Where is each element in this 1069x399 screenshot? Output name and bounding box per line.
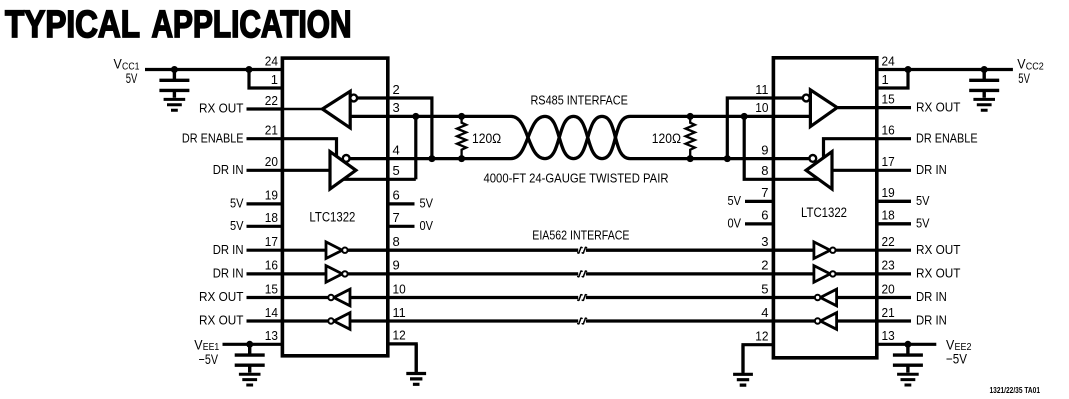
- wire VCC1 to pin 24: [145, 68, 282, 71]
- svg-text:12: 12: [393, 328, 406, 343]
- svg-text:6: 6: [761, 208, 768, 223]
- svg-text:10: 10: [393, 281, 406, 296]
- svg-text:1: 1: [882, 72, 889, 87]
- svg-text:11: 11: [755, 82, 768, 97]
- svg-text:DR IN: DR IN: [213, 266, 244, 281]
- svg-text:2: 2: [393, 82, 400, 97]
- svg-text:3: 3: [761, 234, 768, 249]
- wire branch A to pin 5: [414, 116, 417, 179]
- svg-text:DR IN: DR IN: [213, 162, 244, 177]
- pin numbers left side of U1: [265, 53, 278, 343]
- svg-text:15: 15: [265, 281, 278, 296]
- inverter EIA driver row 4 U2: [815, 313, 837, 330]
- wire net A to pin 10: [690, 115, 810, 118]
- svg-text:14: 14: [265, 305, 278, 320]
- break mark line 3: [578, 295, 587, 301]
- wire DR IN pin 20: [282, 169, 330, 172]
- svg-text:RX OUT: RX OUT: [916, 266, 961, 281]
- svg-text:RX OUT: RX OUT: [199, 289, 244, 304]
- wire EIA562 line 4: [350, 319, 815, 322]
- svg-text:5V: 5V: [728, 193, 742, 208]
- svg-text:9: 9: [393, 258, 400, 273]
- resistor RT2 120ohm: [686, 116, 695, 158]
- svg-text:21: 21: [882, 305, 895, 320]
- svg-text:120Ω: 120Ω: [472, 131, 501, 146]
- buffer EIA receiver row 2 U2: [814, 266, 836, 283]
- svg-text:20: 20: [882, 281, 895, 296]
- svg-text:22: 22: [882, 234, 895, 249]
- svg-text:21: 21: [265, 123, 278, 138]
- svg-text:8: 8: [393, 234, 400, 249]
- svg-text:12: 12: [755, 329, 768, 344]
- junction B-to-11 branch: [724, 155, 731, 162]
- junction B joins net: [428, 155, 435, 162]
- junction at C2: [246, 341, 253, 348]
- svg-text:22: 22: [265, 93, 278, 108]
- wire branch to pin 1: [249, 70, 282, 89]
- wire pin 18 stub U2: [877, 222, 911, 225]
- wire branch A to pin 8: [744, 116, 818, 179]
- twisted pair wire B: [462, 116, 691, 158]
- svg-text:DR ENABLE: DR ENABLE: [916, 130, 978, 145]
- wire pin 7 5V stub U2: [745, 200, 773, 203]
- svg-text:DR ENABLE: DR ENABLE: [182, 130, 244, 145]
- svg-text:5V: 5V: [916, 193, 930, 208]
- ground at U2 pin 12: [733, 345, 753, 385]
- junction at C3: [981, 66, 988, 73]
- svg-text:13: 13: [265, 328, 278, 343]
- svg-text:13: 13: [882, 328, 895, 343]
- wire branch to pin 1 U2: [877, 70, 908, 89]
- junction A-to-8 branch: [741, 113, 748, 120]
- wire pin 20 to EIA driver U2: [837, 296, 911, 299]
- IC U2 LTC1322 body: [773, 58, 876, 358]
- wire pin 19 stub: [247, 202, 283, 205]
- wire pin 20 stub: [247, 169, 283, 172]
- wire VEE1 to pin 13: [223, 343, 283, 346]
- svg-text:5V: 5V: [420, 196, 434, 211]
- svg-text:0V: 0V: [420, 218, 434, 233]
- svg-text:10: 10: [755, 100, 768, 115]
- svg-text:4000-FT 24-GAUGE TWISTED PAIR: 4000-FT 24-GAUGE TWISTED PAIR: [484, 171, 669, 186]
- wire pin 5 from driver: [343, 178, 415, 181]
- wire branch B to pin 11: [727, 98, 802, 159]
- svg-text:TYPICAL: TYPICAL: [5, 4, 140, 46]
- svg-text:23: 23: [882, 258, 895, 273]
- svg-text:DR IN: DR IN: [916, 162, 947, 177]
- svg-text:5V: 5V: [1018, 71, 1030, 86]
- pin numbers right side of U2: [882, 53, 895, 343]
- svg-text:24: 24: [265, 53, 278, 68]
- svg-text:120Ω: 120Ω: [652, 131, 681, 146]
- wire EIA receiver to pin 22: [836, 249, 911, 252]
- break mark line 4: [578, 318, 587, 324]
- svg-text:RX OUT: RX OUT: [199, 313, 244, 328]
- svg-text:1: 1: [271, 72, 278, 87]
- svg-text:3: 3: [393, 100, 400, 115]
- svg-text:1321/22/35 TA01: 1321/22/35 TA01: [990, 386, 1041, 394]
- svg-text:5V: 5V: [230, 196, 244, 211]
- junction pin1 branch: [246, 66, 253, 73]
- wire pin 16 stub: [247, 272, 283, 275]
- wire DR ENABLE pin 16: [824, 139, 912, 158]
- inverter EIA driver row 3 U2: [815, 289, 837, 306]
- svg-text:5V: 5V: [126, 71, 138, 86]
- wire pin 4 from driver bubble: [349, 157, 461, 160]
- svg-text:−5V: −5V: [946, 352, 967, 367]
- wire pin 19 stub U2: [877, 200, 911, 203]
- wire pin 14 stub: [247, 319, 283, 322]
- wire pin 15 stub: [247, 296, 283, 299]
- wire EIA562 line 3: [350, 296, 815, 299]
- junction RT1 top: [458, 113, 465, 120]
- junction RT2 top: [687, 113, 694, 120]
- junction at C4: [904, 341, 911, 348]
- svg-text:5: 5: [761, 281, 768, 296]
- wire EIA562 line 1: [348, 249, 814, 252]
- op-amp DR driver U2b: [806, 152, 832, 189]
- svg-text:APPLICATION: APPLICATION: [152, 4, 352, 46]
- svg-text:4: 4: [393, 142, 400, 157]
- svg-text:6: 6: [393, 188, 400, 203]
- inverter EIA receiver row 4: [328, 313, 350, 330]
- break mark line 1: [578, 247, 587, 253]
- wire pin 12 to ground: [388, 344, 416, 372]
- svg-text:5V: 5V: [230, 218, 244, 233]
- svg-text:9: 9: [761, 142, 768, 157]
- svg-text:5: 5: [393, 163, 400, 178]
- svg-text:7: 7: [761, 185, 768, 200]
- buffer EIA driver row 2: [326, 266, 348, 283]
- wire pin 22 to receiver output: [282, 108, 322, 111]
- wire pin 6 5V stub: [388, 202, 415, 205]
- wire EIA receiver to pin 23: [836, 272, 911, 275]
- svg-text:DR IN: DR IN: [213, 242, 244, 257]
- svg-text:RX OUT: RX OUT: [199, 101, 244, 116]
- junction RT1 bottom: [458, 155, 465, 162]
- svg-text:DR IN: DR IN: [916, 289, 947, 304]
- wire EIA receiver to pin 14: [282, 319, 328, 322]
- wire DR IN pin 17: [832, 169, 911, 172]
- IC U1 LTC1322 body: [282, 58, 387, 356]
- wire stub 5V U2: [877, 222, 911, 225]
- svg-text:20: 20: [265, 154, 278, 169]
- break mark line 2: [578, 271, 587, 277]
- svg-text:RX OUT: RX OUT: [916, 242, 961, 257]
- buffer EIA driver row 1: [326, 242, 348, 259]
- wire pin 7 0V stub: [388, 225, 415, 228]
- twisted pair wire A: [462, 116, 691, 158]
- wire pin 22 stub: [247, 107, 283, 110]
- svg-text:17: 17: [265, 234, 278, 249]
- svg-text:19: 19: [265, 188, 278, 203]
- wire EIA receiver to pin 15: [282, 296, 328, 299]
- wire net B to pin 9: [690, 157, 809, 160]
- svg-text:0V: 0V: [728, 216, 742, 231]
- svg-text:17: 17: [882, 154, 895, 169]
- svg-text:5V: 5V: [916, 216, 930, 231]
- junction at C1: [171, 66, 178, 73]
- resistor RT1 120ohm: [457, 116, 466, 158]
- wire pin 21 stub: [247, 137, 283, 140]
- pin numbers left side of U2: [755, 82, 768, 344]
- svg-text:16: 16: [265, 258, 278, 273]
- svg-text:LTC1322: LTC1322: [309, 210, 355, 225]
- svg-text:19: 19: [882, 185, 895, 200]
- wire pin 3 net A: [350, 115, 461, 118]
- junction RT2 bottom: [687, 155, 694, 162]
- svg-text:16: 16: [882, 123, 895, 138]
- capacitor C4 with ground: [893, 344, 923, 372]
- wire pin 6 0V stub U2: [745, 222, 773, 225]
- svg-text:EIA562 INTERFACE: EIA562 INTERFACE: [532, 227, 629, 242]
- wire receiver output to pin 15: [838, 106, 911, 109]
- svg-text:15: 15: [882, 91, 895, 106]
- capacitor C1 with ground: [159, 70, 189, 98]
- svg-text:18: 18: [882, 208, 895, 223]
- svg-text:DR IN: DR IN: [916, 313, 947, 328]
- junction A-to-5 branch: [412, 113, 419, 120]
- svg-text:24: 24: [882, 53, 895, 68]
- svg-text:18: 18: [265, 210, 278, 225]
- svg-text:2: 2: [761, 258, 768, 273]
- wire pin 2 net B: [356, 98, 432, 159]
- wire DR ENABLE pin 21: [282, 139, 336, 157]
- wire pin 17 to EIA driver: [282, 249, 326, 252]
- wire pin 12 to ground U2: [743, 345, 773, 372]
- pin numbers right side of U1: [393, 82, 406, 343]
- svg-text:11: 11: [393, 305, 406, 320]
- capacitor C3 with ground: [969, 70, 999, 98]
- svg-text:7: 7: [393, 210, 400, 225]
- svg-text:4: 4: [761, 305, 768, 320]
- wire pin 17 stub: [247, 249, 283, 252]
- wire pin 18 stub: [247, 225, 283, 228]
- op-amp RX receiver U2a: [803, 90, 837, 127]
- wire pin 13 to VEE2: [877, 343, 937, 346]
- svg-text:LTC1322: LTC1322: [801, 205, 847, 220]
- wire pin 16 to EIA driver: [282, 272, 326, 275]
- wire pin 21 to EIA driver U2: [837, 319, 911, 322]
- ground at U1 pin 12: [406, 344, 426, 384]
- junction pin1 branch U2: [905, 66, 912, 73]
- op-amp RX receiver U1a: [322, 91, 357, 128]
- buffer EIA receiver row 1 U2: [814, 242, 836, 259]
- wire EIA562 line 2: [348, 272, 814, 275]
- inverter EIA receiver row 3: [328, 289, 350, 306]
- wire pin 24 to VCC2: [877, 68, 1013, 71]
- svg-text:RS485 INTERFACE: RS485 INTERFACE: [530, 93, 628, 108]
- capacitor C2 with ground: [235, 344, 265, 372]
- wire stub 5V U2: [877, 200, 911, 203]
- svg-text:−5V: −5V: [199, 352, 218, 367]
- svg-text:8: 8: [761, 163, 768, 178]
- op-amp DR driver U1b: [330, 152, 356, 189]
- svg-text:RX OUT: RX OUT: [916, 99, 961, 114]
